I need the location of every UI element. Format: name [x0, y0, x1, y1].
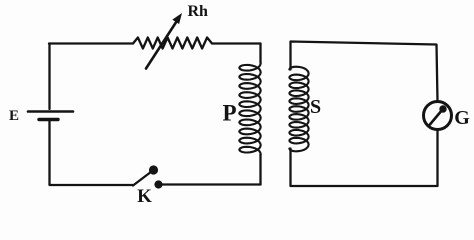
- svg-text:S: S: [310, 96, 321, 118]
- svg-text:E: E: [9, 108, 19, 124]
- svg-text:G: G: [454, 107, 470, 129]
- svg-text:P: P: [222, 101, 236, 126]
- svg-text:Rh: Rh: [188, 3, 209, 20]
- svg-text:K: K: [137, 186, 152, 207]
